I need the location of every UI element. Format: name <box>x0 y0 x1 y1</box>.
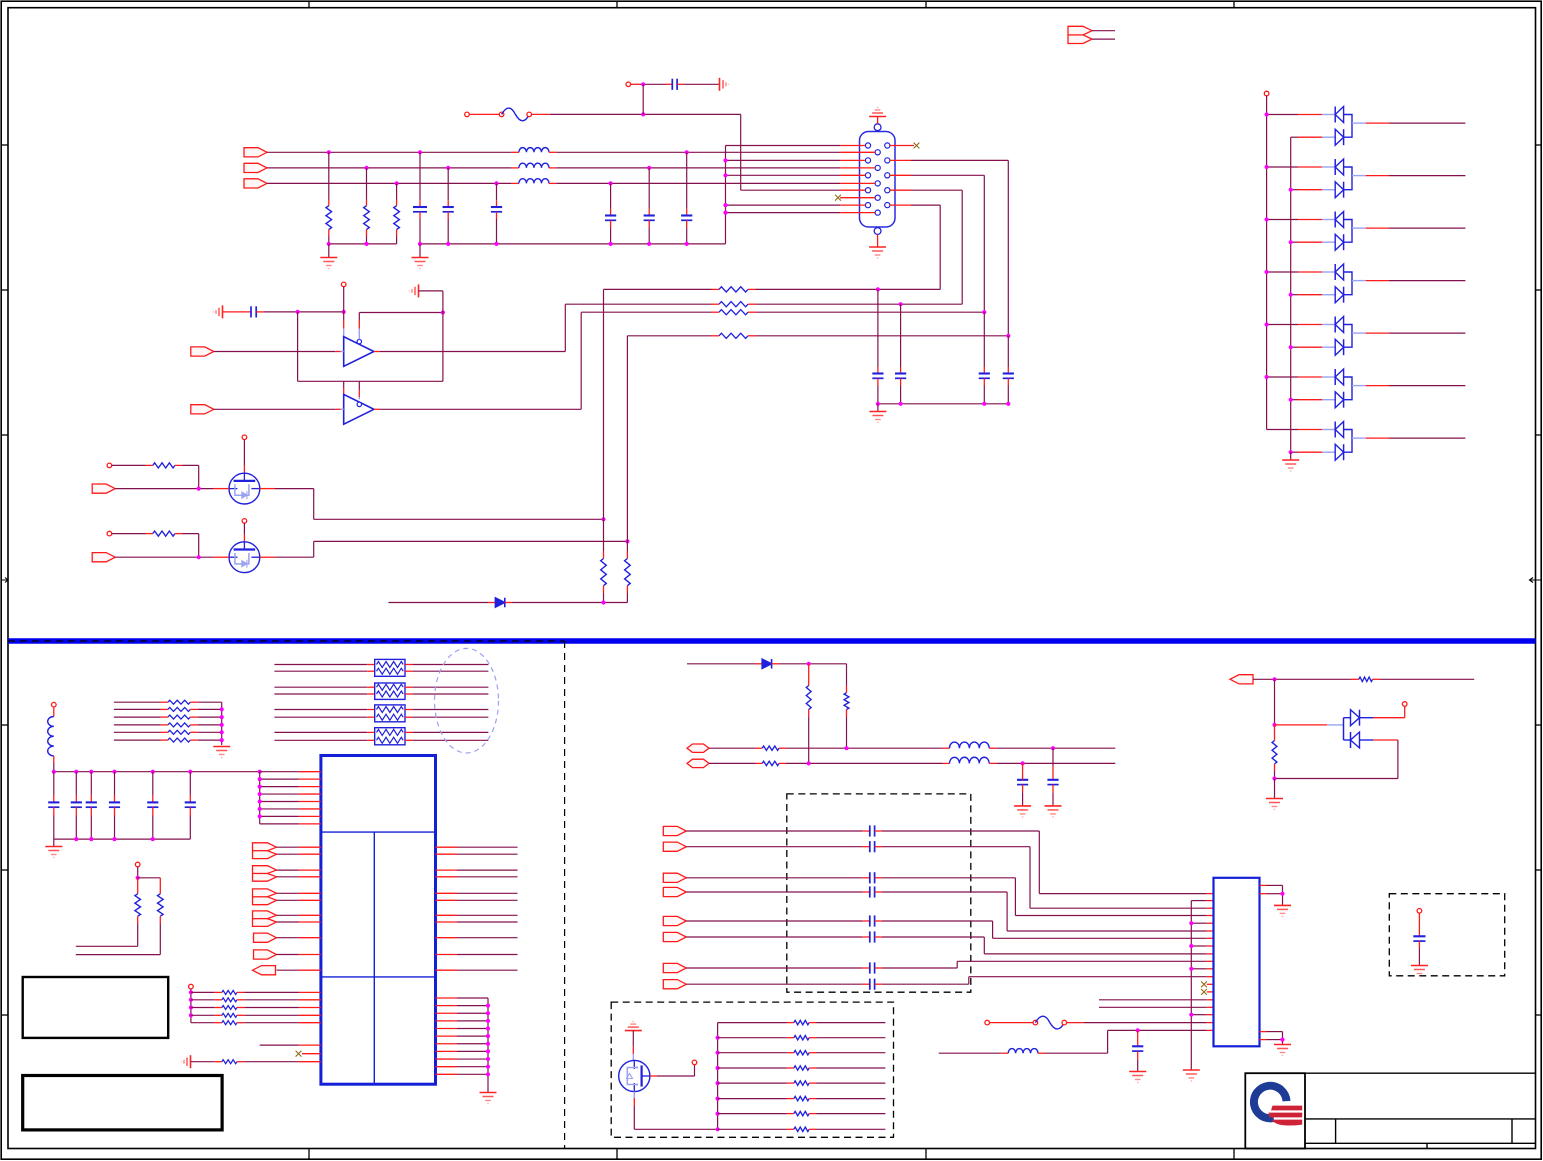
wire Q2 source out <box>260 556 275 558</box>
wire D10 top out <box>1360 717 1374 719</box>
node res array bus <box>716 1112 720 1116</box>
node bus C <box>982 402 986 406</box>
capacitor C11 <box>1007 336 1009 367</box>
wire VGA pin5 feed <box>726 204 841 206</box>
IC U3 divider h1 <box>321 831 436 833</box>
wire S2 to CN2 <box>882 847 1214 909</box>
wire row N to end <box>996 762 1115 764</box>
wire U1 feedback to node B <box>359 312 443 314</box>
node six-res <box>220 730 224 734</box>
node cap C7 tap <box>641 82 645 86</box>
dual diode D4 pair <box>1267 212 1466 251</box>
connector B1 oval <box>687 744 709 752</box>
resistor R50 array <box>718 1022 794 1024</box>
wire V1 vertical <box>603 289 605 551</box>
capacitor C31 <box>1052 748 1054 766</box>
resistor R40 <box>762 746 779 750</box>
resistor R22 small <box>114 716 168 718</box>
title block row line <box>1305 1118 1536 1120</box>
connector A4 double arrow <box>253 911 277 927</box>
node P8 bus <box>189 990 193 994</box>
wire U2 enable stub <box>358 381 360 390</box>
wire U2 input <box>214 408 335 410</box>
node six-res <box>220 723 224 727</box>
wire row N <box>709 762 756 764</box>
connector CN1 mounting hole bottom <box>874 228 881 235</box>
node res array bus <box>716 1081 720 1085</box>
node bus B <box>446 242 450 246</box>
node P9 <box>136 876 140 880</box>
connector CN1 pins left column <box>865 143 870 208</box>
wire R line <box>267 151 512 153</box>
wire S5 to CN2 <box>882 921 1214 938</box>
wire S4 to CN2 <box>882 892 1214 931</box>
no-connect CN2 pins <box>1207 983 1214 985</box>
node P8 bus <box>189 1005 193 1009</box>
capacitor C50 <box>1137 1030 1139 1039</box>
node top bus <box>74 770 78 774</box>
wire U1 enable stub <box>358 329 360 340</box>
resistor R36 <box>137 878 139 894</box>
company logo <box>1250 1082 1291 1123</box>
wires IC U3 right middle pins <box>436 847 518 970</box>
node top bus <box>89 770 93 774</box>
capacitor C41 series <box>686 841 882 852</box>
node C5 junction <box>647 166 651 170</box>
resistor R23 small <box>114 724 168 726</box>
cable bundle ellipse <box>435 648 499 753</box>
no-connect VGA pin9 <box>835 195 841 201</box>
resistor pack RN2 <box>274 683 488 699</box>
capacitor C6 <box>610 183 612 208</box>
connector A2 double arrow <box>253 866 277 882</box>
wire diode row <box>388 602 488 604</box>
wire R60 out <box>1380 678 1474 680</box>
node fuse junction <box>641 112 645 116</box>
op-amp U2 enable bubble <box>357 402 361 406</box>
IC U3 divider h2 <box>321 976 436 978</box>
pin P2 <box>626 82 631 87</box>
node rb bus <box>486 1034 490 1038</box>
node A1 <box>296 310 300 314</box>
wire VGA pin10 feed <box>726 212 841 214</box>
dashed box mosfet <box>611 1002 893 1137</box>
node rb bus <box>486 1065 490 1069</box>
node bus2 pair5 <box>1289 345 1293 349</box>
inductor L3 <box>512 182 519 184</box>
dashed partition horizontal <box>8 640 565 642</box>
wire row P <box>709 747 756 749</box>
wire supply pin bus <box>259 772 261 824</box>
node P8 bus <box>189 1013 193 1017</box>
wire bus to pin rows <box>1191 901 1213 1015</box>
wire U2 output <box>374 408 380 410</box>
resistor R39 <box>846 664 848 686</box>
wire Q1 drain stub <box>243 440 245 465</box>
wire diode bus1 <box>1266 96 1268 430</box>
node row N cap <box>1021 761 1025 765</box>
wire R line to VGA <box>556 151 840 153</box>
ground GND2 <box>419 244 421 257</box>
wire lower rail <box>297 312 299 381</box>
fuse F2 <box>990 1022 1036 1024</box>
capacitor C25 bank <box>189 772 191 803</box>
connector A3 double arrow <box>253 889 277 905</box>
node top bus <box>188 770 192 774</box>
wire C7 tap to fuse line <box>642 84 644 114</box>
wire VGA pin2 feed <box>726 159 841 161</box>
node bus C <box>1006 402 1010 406</box>
wire B line <box>267 182 512 184</box>
node rb bus <box>486 1049 490 1053</box>
node res array bus <box>716 1097 720 1101</box>
wire single row <box>260 1044 299 1046</box>
connector CN2 block <box>1214 878 1260 1047</box>
ground GND7 earth <box>214 305 223 318</box>
resistor R54 array <box>718 1082 794 1084</box>
node top bus <box>52 770 56 774</box>
transistor Q2 <box>229 542 260 573</box>
ground GND21 <box>1266 799 1283 810</box>
title block row line 2 <box>1305 1142 1536 1144</box>
resistor R1 <box>328 152 330 199</box>
connector S4 arrow <box>663 887 686 896</box>
transistor Q1 <box>229 473 260 504</box>
capacitor C45 series <box>686 931 882 942</box>
centre mark right <box>1529 578 1541 583</box>
node bus B <box>685 242 689 246</box>
dashed partition vertical <box>564 641 566 1149</box>
op-amp U1 enable bubble <box>357 339 361 343</box>
wire S1 to CN2 <box>882 831 1214 894</box>
dual diode D7 pair <box>1267 369 1466 408</box>
wire row P cont <box>779 747 786 749</box>
title block cell divider 3 <box>1426 1143 1428 1148</box>
wire Q3 drain stub <box>632 1031 634 1047</box>
node rb bus <box>486 1011 490 1015</box>
centre mark left <box>2 578 9 583</box>
ground GND17 <box>1129 1072 1146 1083</box>
wire S6 to CN2 <box>882 937 1214 954</box>
capacitor C46 series <box>686 962 882 973</box>
wire Q3 source <box>633 1092 635 1098</box>
capacitor C23 bank <box>114 772 116 803</box>
wire B line to VGA <box>556 182 840 184</box>
node D10 in <box>1272 723 1276 727</box>
wire P3 stub <box>343 287 345 312</box>
node B1 <box>441 310 445 314</box>
node R2 junction <box>364 166 368 170</box>
connector S2 arrow <box>663 842 686 851</box>
wire diode D9 row <box>687 663 755 665</box>
connector A8 arrow out <box>1230 675 1253 684</box>
node CN2 gnd bus <box>1189 921 1193 925</box>
fuse F1 <box>469 113 501 115</box>
wire L7 to CN2 <box>1045 1052 1108 1054</box>
dual diode D2 pair <box>1267 107 1466 146</box>
node six-res <box>220 715 224 719</box>
ground GND10 <box>213 747 230 758</box>
wire F2 to CN2 <box>1084 1022 1207 1024</box>
connector J-G input arrow <box>244 163 267 172</box>
resistor R57 array <box>718 1128 794 1130</box>
inductor L2 <box>512 167 519 169</box>
capacitor C9 <box>900 304 902 367</box>
wire fuse line <box>550 113 741 115</box>
inductor L5 <box>943 747 950 749</box>
wire Q1 gate <box>115 488 213 490</box>
ground GND5 below VGA <box>877 234 879 246</box>
diode D1 <box>488 602 495 604</box>
pin P1 <box>465 112 470 117</box>
inductor L4 <box>53 707 55 717</box>
ground GND20 <box>1411 966 1428 977</box>
connector CN1 pins middle column <box>875 150 880 216</box>
capacitor C21 bank <box>75 772 77 803</box>
node VGA pin2 <box>723 158 727 162</box>
node C50 tap <box>1136 1028 1140 1032</box>
wire G line <box>267 167 512 169</box>
wires IC U3 right bottom pins <box>436 998 489 1074</box>
wire P9 stub <box>137 867 139 878</box>
capacitor C12 <box>223 311 252 313</box>
connector S3 arrow <box>663 873 686 882</box>
connector S1 arrow <box>663 826 686 835</box>
ground GND3 <box>720 78 729 91</box>
wires arrows to IC U3 <box>277 847 321 970</box>
resistor R52 array <box>718 1052 794 1054</box>
power ground symbol <box>625 1022 642 1031</box>
pin P7 power in <box>52 702 57 707</box>
resistor R32 <box>191 1007 222 1009</box>
connector A7 arrow out <box>253 966 276 975</box>
ground GND11 <box>53 839 55 846</box>
ground GND8 earth <box>410 284 419 297</box>
node Q2 gate <box>197 555 201 559</box>
wire U1 output <box>374 351 380 353</box>
resistor pack RN4 <box>274 728 488 745</box>
wire diode row right <box>512 602 627 604</box>
pin P10 <box>692 1060 697 1065</box>
resistor R37 <box>138 877 161 879</box>
title block cell divider 1 <box>1335 1119 1337 1143</box>
wire VGA pin12 out <box>890 159 911 161</box>
wire cap bus C <box>878 403 1008 405</box>
connector J-R input arrow <box>244 148 267 157</box>
node res array bus <box>716 1127 720 1131</box>
node rb bus <box>486 1004 490 1008</box>
title block cell divider 2 <box>1511 1119 1513 1143</box>
node VGA pin10 <box>723 211 727 215</box>
node top bus <box>112 770 116 774</box>
capacitor C2 <box>447 168 449 200</box>
ground GND4 above VGA <box>877 117 879 124</box>
border zone ticks right <box>1536 145 1542 1015</box>
ground GND12 earth <box>182 1055 191 1068</box>
wire Q2 drain stub <box>243 523 245 534</box>
wire GND8 to node B riser <box>419 290 443 292</box>
capacitor C24 bank <box>152 772 154 803</box>
wire VGA pin14 out <box>890 189 911 191</box>
wire diode bus2 <box>1290 137 1292 452</box>
resistor pack RN3 <box>274 705 488 722</box>
node CN2 gnd bus <box>1189 944 1193 948</box>
node R3 junction <box>395 181 399 185</box>
node bus1 pair1 <box>1265 112 1269 116</box>
node supply bus <box>258 777 262 781</box>
capacitor C3 <box>496 183 498 200</box>
wire Q2 gate red <box>213 556 229 558</box>
node VGA pin5 <box>723 203 727 207</box>
wire resistor ground bus <box>329 243 397 245</box>
diode D9 <box>755 663 762 665</box>
node R1 junction <box>327 150 331 154</box>
wire cap bank top bus <box>54 771 260 773</box>
node bus1 pair2 <box>1265 165 1269 169</box>
node res array bus <box>716 1036 720 1040</box>
resistor R30 <box>191 991 222 993</box>
connector J2 double arrow <box>1068 26 1092 43</box>
ground GND14 <box>1014 806 1031 817</box>
resistor R5 row H2 <box>565 303 711 305</box>
title block top line <box>1245 1072 1535 1074</box>
node bus A1 <box>327 242 331 246</box>
node H2 cap tap <box>899 302 903 306</box>
wire VGA pin15 out <box>890 204 911 206</box>
dual diode D8 pair <box>1267 422 1466 461</box>
border zone ticks bottom <box>309 1149 1234 1160</box>
ground GND1 <box>328 244 330 257</box>
capacitor C47 series <box>686 979 882 990</box>
node C4 junction <box>685 150 689 154</box>
ground GND15 <box>1045 806 1062 817</box>
resistor R35 <box>191 1061 215 1063</box>
node res array bus <box>716 1066 720 1070</box>
node row P cap <box>1051 746 1055 750</box>
capacitor C22 bank <box>90 772 92 803</box>
connector S6 arrow <box>663 932 686 941</box>
ground GND6 <box>877 404 879 411</box>
node C3 junction <box>494 181 498 185</box>
node bus1 pair3 <box>1265 217 1269 221</box>
resistor R38 <box>808 664 810 686</box>
connector S7 arrow <box>663 963 686 972</box>
wire J2 pin1 <box>1092 30 1115 32</box>
dual diode D10 <box>1344 710 1360 748</box>
wire Q2 gate <box>115 556 213 558</box>
node CN2 gnd bus <box>1189 967 1193 971</box>
node bus1 pair4 <box>1265 270 1269 274</box>
node bus1 pair6 <box>1265 375 1269 379</box>
wire capacitor ground bus <box>420 243 726 245</box>
connector Q1 gate arrow <box>92 484 115 493</box>
resistor R8 <box>107 463 112 468</box>
connector J-B input arrow <box>244 179 267 188</box>
node six-res <box>220 738 224 742</box>
connector U1 input arrow <box>191 347 214 356</box>
resistor R2 <box>366 168 368 200</box>
node bus2 pair6 <box>1289 398 1293 402</box>
node bus A2 <box>364 242 368 246</box>
resistor R21 small <box>114 708 168 710</box>
capacitor C42 series <box>686 872 882 883</box>
wire G line to VGA <box>556 167 840 169</box>
node bottom bus <box>112 837 116 841</box>
dual diode D5 pair <box>1267 264 1466 303</box>
node supply bus <box>258 814 262 818</box>
node rb bus <box>486 1072 490 1076</box>
node top bus end <box>258 770 262 774</box>
wire D9 out <box>779 663 847 665</box>
connector A5 arrow <box>254 933 277 942</box>
capacitor C10 <box>983 312 985 367</box>
node bottom bus <box>74 837 78 841</box>
node rb bus <box>486 1042 490 1046</box>
node bottom bus <box>89 837 93 841</box>
node bus C <box>899 402 903 406</box>
wire Q1 gate red <box>213 488 229 490</box>
node bus2 pair7 <box>1289 450 1293 454</box>
connector Q2 gate arrow <box>92 553 115 562</box>
wire open rows to CN2 <box>1099 999 1207 1001</box>
node C1 junction <box>418 150 422 154</box>
node CN2 tr <box>1280 892 1284 896</box>
node P8 bus <box>189 998 193 1002</box>
capacitor C44 series <box>686 915 882 926</box>
node Q1 gate <box>197 487 201 491</box>
connector CN1 pins right column <box>885 143 890 208</box>
resistor R60 <box>1351 678 1359 680</box>
resistor R6 row H3 <box>581 311 711 313</box>
wire A8 drop <box>1274 679 1276 725</box>
node A8 <box>1272 677 1276 681</box>
wire row N cont <box>779 762 786 764</box>
wire VGA pin3 feed <box>726 174 841 176</box>
node H3 junction <box>982 310 986 314</box>
resistor R3 <box>396 183 398 199</box>
resistor R9 <box>107 531 112 536</box>
pin P3 <box>341 282 346 287</box>
wire U2 vcc stub <box>343 381 345 388</box>
wire cap bank bottom bus <box>54 838 191 840</box>
no-connect VGA pin11 <box>890 145 914 147</box>
node C2 junction <box>446 166 450 170</box>
resistor R55 array <box>718 1098 794 1100</box>
dashed box capacitors <box>787 794 971 992</box>
wire row P to end <box>996 747 1115 749</box>
resistor R51 array <box>718 1037 794 1039</box>
ground GND13 <box>480 1093 497 1104</box>
node H4 junction <box>1006 334 1010 338</box>
op-amp U1 buffer <box>344 337 374 367</box>
connector U2 input arrow <box>191 405 214 414</box>
resistor R11 <box>626 551 628 559</box>
node V2 Q2 tap <box>625 539 629 543</box>
resistor R53 array <box>718 1067 794 1069</box>
resistor R24 small <box>114 731 168 733</box>
resistor R10 <box>603 551 605 559</box>
wire U1 input <box>214 351 335 353</box>
wire S7 to CN2 <box>882 961 1214 968</box>
wire Q1 source out <box>260 488 275 490</box>
resistor R56 array <box>718 1113 794 1115</box>
node VGA pin3 <box>723 173 727 177</box>
node A2 <box>342 310 346 314</box>
connector CN1 mounting hole top <box>874 124 881 131</box>
wire J2 pin2 <box>1092 38 1115 40</box>
node C6 junction <box>609 181 613 185</box>
capacitor C1 <box>419 152 421 200</box>
